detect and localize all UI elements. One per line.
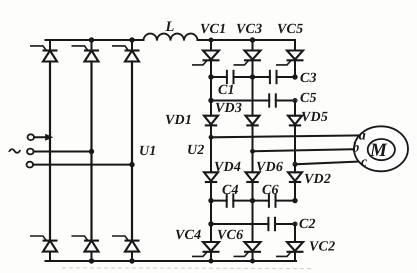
wire leg1 between bottom cap rows: [210, 201, 212, 224]
wire rectifier leg 1 top bus to thyristor: [49, 40, 51, 51]
wire inverter leg 2 to bottom bus: [252, 252, 254, 261]
node junction leg3 / C5 row: [293, 99, 297, 103]
inductor L (DC link choke): [144, 34, 198, 41]
thyristor VC5: [276, 51, 304, 65]
capacitor C3: [270, 70, 277, 84]
svg-text:C1: C1: [218, 83, 235, 98]
wire VD5 cathode to node c: [294, 125, 296, 164]
diode VD1: [204, 116, 218, 126]
svg-text:VC5: VC5: [277, 22, 303, 37]
svg-text:c: c: [361, 155, 368, 170]
wire motor phase a: [211, 135, 362, 137]
svg-text:U2: U2: [187, 143, 205, 158]
wire VD2 to C6 row: [294, 182, 296, 201]
wire rectifier leg 1 to bottom bus: [49, 252, 51, 261]
wire leg1 to VD1: [210, 101, 212, 116]
wire inverter leg 3 to bottom bus: [294, 252, 296, 261]
wire C6 left lead: [253, 200, 269, 202]
svg-text:C6: C6: [262, 183, 279, 198]
svg-text:VC4: VC4: [175, 228, 201, 243]
thyristor rectifier upper-left (U1): [30, 46, 58, 62]
node junction bottom bus / inverter leg 2: [250, 259, 255, 264]
capacitor C2: [268, 217, 275, 231]
wire top DC bus left segment: [46, 39, 144, 41]
wire VD1 cathode to node a: [210, 125, 212, 137]
wire rectifier leg 3 vertical: [131, 62, 133, 241]
thyristor rectifier lower leg 3 (U1): [112, 236, 140, 252]
node junction AC phase 3 / leg 3: [129, 162, 134, 167]
svg-text:a: a: [359, 129, 366, 144]
wire inverter leg 2 bus to VC3: [252, 40, 254, 51]
thyristor VC6: [234, 242, 262, 256]
wire AC phase 2 to leg 2: [34, 151, 92, 153]
svg-text:VD2: VD2: [304, 172, 331, 187]
svg-text:L: L: [165, 19, 175, 35]
svg-text:C4: C4: [222, 183, 239, 198]
wire rectifier leg 2 to bottom bus: [91, 252, 93, 261]
node junction bottom bus / rectifier leg 3: [129, 258, 134, 263]
wire C2 right lead: [275, 223, 295, 225]
diode VD5: [288, 116, 302, 126]
diode VD3: [246, 116, 260, 126]
wire C5 row crossing leg2: [211, 100, 269, 102]
node junction top bus / rectifier leg 3: [129, 37, 134, 42]
node junction leg3 / C2 row: [293, 222, 297, 226]
node junction leg1 / C1 row: [208, 74, 213, 79]
wire C5 right lead: [276, 100, 295, 102]
node junction top bus / inverter leg 1: [209, 38, 214, 43]
node junction bottom bus / rectifier leg 2: [89, 258, 94, 263]
svg-text:VD5: VD5: [301, 110, 328, 125]
wire leg2 to VD3: [252, 77, 254, 116]
diode VD2: [288, 172, 302, 182]
wire rectifier leg 3 top bus to thyristor: [131, 40, 133, 51]
label AC mains tilde: [9, 149, 20, 153]
node junction leg3 / C3 row: [292, 74, 297, 79]
thyristor rectifier upper-right (U1): [112, 46, 140, 62]
svg-text:C3: C3: [300, 71, 317, 86]
thyristor rectifier lower leg 2 (U1): [72, 236, 100, 252]
node b junction: [250, 149, 255, 154]
wire VD3 cathode to node b: [252, 125, 254, 151]
wire C3 right lead: [277, 76, 296, 78]
diode VD6: [246, 172, 260, 182]
motor M rotor circle: [368, 139, 395, 160]
wire rectifier leg 2 top bus to thyristor: [91, 40, 93, 51]
wire AC phase 3 to leg 3: [33, 164, 132, 166]
thyristor VC4: [192, 242, 220, 256]
wire inverter leg 3 bus to VC5: [294, 40, 296, 51]
wire C4 left lead: [211, 200, 227, 202]
svg-text:VC2: VC2: [309, 240, 335, 255]
wire C1 right lead: [234, 76, 253, 78]
node junction AC phase 1 / leg 1: [45, 134, 53, 141]
thyristor VC2: [276, 242, 304, 256]
wire leg3 to VD5: [294, 101, 296, 116]
svg-text:VD3: VD3: [215, 101, 242, 116]
motor M stator circle: [354, 126, 408, 171]
terminal AC phase 2: [27, 149, 34, 155]
thyristor VC3: [234, 51, 262, 65]
svg-text:b: b: [353, 140, 360, 155]
wire leg2 to VC6: [252, 201, 254, 242]
wire bottom DC bus: [46, 260, 297, 262]
svg-text:C5: C5: [300, 91, 317, 106]
wire C2 row crossing leg2: [211, 223, 268, 225]
node junction leg1 / C4 row: [208, 198, 213, 203]
node a junction: [209, 135, 214, 140]
svg-text:VD1: VD1: [165, 113, 192, 128]
svg-text:VC3: VC3: [236, 22, 262, 37]
thyristor VC1: [192, 51, 220, 65]
svg-text:VC6: VC6: [217, 228, 243, 243]
wire VC3 cathode down: [252, 60, 254, 77]
terminal AC phase 3: [27, 162, 34, 168]
wire inverter leg 1 to bottom bus: [210, 252, 212, 261]
wire C4 right lead: [233, 200, 252, 202]
wire VD4 to C4 row: [210, 182, 212, 201]
wire AC phase 1 to leg 1: [34, 136, 50, 138]
node c junction: [293, 162, 297, 166]
svg-text:C2: C2: [299, 217, 316, 232]
node junction leg2 / C4-C6 row: [250, 198, 255, 203]
node junction leg1 / C2 row: [208, 221, 213, 226]
wire leg1 to VC4: [210, 224, 212, 242]
svg-text:VC1: VC1: [200, 22, 226, 37]
wire node b to VD6: [252, 151, 254, 172]
wire rectifier leg 1 vertical: [49, 62, 51, 241]
wire rectifier leg 3 to bottom bus: [131, 252, 133, 261]
wire C6 right lead: [276, 200, 296, 202]
wire top DC bus right segment: [198, 39, 296, 41]
capacitor C6: [269, 193, 276, 207]
wire node c to VD2: [294, 164, 296, 172]
diode VD4: [204, 172, 218, 182]
capacitor C1: [227, 70, 234, 84]
wire leg1 between cap rows: [210, 77, 212, 101]
wire leg3 to VC2: [294, 224, 296, 242]
node junction AC phase 2 / leg 2: [89, 149, 94, 154]
wire node a to VD4: [210, 137, 212, 172]
node junction leg2 / C1-C3 row: [250, 74, 255, 79]
thyristor rectifier upper-middle (U1): [72, 46, 100, 62]
thyristor rectifier lower leg 1 (U1): [30, 236, 58, 252]
wire C1 left lead: [211, 76, 227, 78]
capacitor C5: [269, 93, 276, 107]
wire VD6 to C6 row: [252, 182, 254, 201]
capacitor C4: [227, 193, 234, 207]
wire motor phase b: [253, 149, 359, 151]
node junction leg3 / C6 row: [292, 198, 297, 203]
node junction top bus / inverter leg 2: [250, 37, 255, 42]
wire C3 left lead: [253, 76, 270, 78]
wire motor phase c: [295, 161, 362, 164]
terminal AC phase 1: [28, 134, 35, 140]
svg-text:M: M: [369, 140, 388, 161]
wire VC5 cathode down: [294, 60, 296, 77]
wire inverter leg 1 bus to VC1: [210, 40, 212, 51]
node junction bottom bus / inverter leg 1: [209, 259, 214, 264]
wire scan artifact faint line: [62, 267, 312, 270]
wire rectifier leg 2 vertical: [90, 62, 92, 241]
svg-text:U1: U1: [139, 144, 157, 159]
wire VC1 cathode down: [210, 60, 212, 77]
node junction top bus / rectifier leg 2: [89, 37, 94, 42]
node junction leg1 / C5 row: [208, 98, 213, 103]
